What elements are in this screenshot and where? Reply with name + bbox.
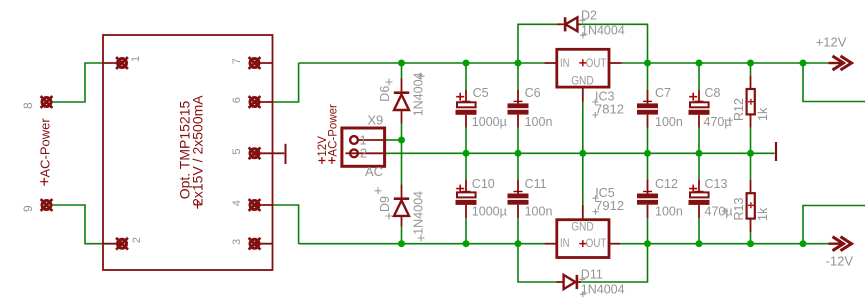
svg-text:IN: IN (560, 238, 570, 250)
wire C12 column (647, 153, 649, 179)
transformer pin 2 stub (103, 243, 122, 245)
wire +12V branch down right edge (803, 63, 865, 102)
capacitor C6 (517, 90, 519, 104)
svg-text:IN: IN (560, 58, 570, 70)
svg-text:1N4004: 1N4004 (412, 72, 426, 116)
wire C10 column (465, 153, 467, 179)
wire C5 column (465, 63, 467, 90)
svg-text:C10: C10 (472, 177, 495, 191)
wire pin8 to transformer pin1 (52, 63, 103, 102)
svg-text:100n: 100n (525, 204, 553, 218)
wire C13 column (698, 153, 700, 179)
svg-text:1N4004: 1N4004 (581, 282, 625, 296)
transformer pin 7 stub (255, 62, 273, 64)
svg-text:1: 1 (130, 56, 142, 62)
svg-text:100n: 100n (655, 204, 683, 218)
svg-text:1k: 1k (756, 107, 770, 121)
origin cross 12V (318, 157, 325, 164)
wire diode column (401, 63, 403, 79)
diode D2 (557, 23, 564, 25)
wire D2 to C7 column (580, 24, 648, 63)
svg-text:1000µ: 1000µ (472, 115, 507, 129)
node pin 9 AC input (41, 199, 53, 211)
origin cross AC-Power left (40, 178, 48, 186)
ground symbol right (775, 142, 777, 161)
wire D11 bypass right (581, 244, 648, 282)
diode D6 (401, 79, 403, 95)
wire X9 pin1 to diode column (386, 139, 402, 141)
svg-text:AC-Power: AC-Power (328, 104, 340, 157)
svg-text:4: 4 (231, 200, 243, 206)
wire top rail left (299, 62, 545, 64)
voltage regulator IC5 7912 (544, 243, 555, 245)
resistor R13 (750, 180, 752, 193)
node X9 pin1 junction (398, 137, 405, 144)
wire R13 column (750, 153, 752, 180)
node junction dots mid rail (463, 150, 470, 157)
capacitor C8 (698, 90, 700, 103)
svg-text:R13: R13 (732, 198, 746, 221)
svg-text:1N4004: 1N4004 (412, 191, 426, 235)
wire transformer pin6 to top rail (273, 63, 299, 102)
node pin 8 AC input (41, 96, 53, 108)
node junction dots top rail (398, 60, 405, 67)
svg-text:470µ: 470µ (704, 115, 732, 129)
transformer pin 1 stub (103, 62, 122, 64)
svg-text:1k: 1k (756, 207, 770, 221)
diode D9 (401, 184, 403, 200)
svg-text:7: 7 (231, 58, 243, 64)
origin cross AC-Power X9 (328, 157, 335, 164)
svg-text:C5: C5 (473, 86, 489, 100)
svg-text:100n: 100n (525, 115, 553, 129)
wire IC3 GND to mid rail (582, 102, 584, 154)
svg-text:100n: 100n (655, 115, 683, 129)
svg-text:GND: GND (571, 222, 594, 234)
svg-text:R12: R12 (732, 98, 746, 121)
svg-text:D6: D6 (378, 86, 392, 102)
capacitor C13 (698, 179, 700, 192)
svg-text:GND: GND (571, 75, 594, 87)
svg-text:7912: 7912 (595, 199, 624, 213)
svg-text:1000µ: 1000µ (472, 204, 507, 218)
svg-text:C13: C13 (705, 177, 728, 191)
transformer pin 4 stub (255, 204, 273, 206)
wire IC5 GND to mid rail (582, 153, 584, 205)
wire C6 column (517, 63, 519, 90)
wire C8 column (698, 63, 700, 90)
svg-text:C7: C7 (655, 86, 671, 100)
voltage regulator IC3 7812 (544, 62, 555, 64)
svg-text:3: 3 (231, 239, 243, 245)
svg-text:X9: X9 (367, 112, 383, 127)
capacitor C11 (517, 179, 519, 193)
wire R12 column (750, 63, 752, 76)
capacitor C10 (465, 179, 467, 192)
svg-text:1N4004: 1N4004 (581, 23, 625, 37)
svg-text:-12V: -12V (826, 254, 854, 269)
svg-text:AC-Power: AC-Power (38, 118, 53, 178)
wire C7 column (647, 63, 649, 90)
transformer pin 5 stub (255, 152, 285, 154)
wire mid GND rail (386, 152, 775, 154)
svg-text:OUT: OUT (586, 238, 607, 250)
resistor R12 (750, 76, 752, 89)
connector X9 pin 1 circle (350, 136, 358, 144)
transformer origin cross (194, 201, 202, 209)
capacitor C12 (647, 179, 649, 193)
svg-text:OUT: OUT (586, 58, 607, 70)
transformer pin 3 stub (255, 243, 273, 245)
svg-text:2: 2 (360, 146, 367, 161)
svg-text:C6: C6 (525, 86, 541, 100)
wire top rail right (622, 62, 829, 64)
svg-text:2x15V / 2x500mA: 2x15V / 2x500mA (190, 95, 206, 206)
wire transformer pin4 to bottom rail (273, 205, 299, 244)
wire D2 bypass (518, 24, 557, 63)
ground bar at transformer pin 5 (285, 144, 287, 164)
svg-text:470µ: 470µ (705, 204, 733, 218)
svg-text:D9: D9 (378, 196, 392, 212)
wire bottom rail right (620, 243, 829, 245)
connector X9 pin 2 circle (350, 149, 358, 157)
wire D11 bypass left (518, 244, 557, 282)
wire -12V branch up right edge (803, 206, 865, 244)
svg-text:+12V: +12V (816, 34, 847, 49)
svg-text:6: 6 (231, 97, 243, 103)
wire bottom rail left (299, 243, 545, 245)
svg-text:7812: 7812 (595, 102, 624, 116)
node junction dots bottom rail (398, 240, 405, 247)
svg-text:AC: AC (365, 164, 383, 179)
svg-text:8: 8 (21, 102, 35, 109)
connector X9 box (342, 128, 385, 166)
transformer TR box (103, 35, 273, 270)
svg-text:C11: C11 (525, 177, 547, 191)
transformer pin 6 stub (255, 101, 273, 103)
diode D11 (557, 281, 564, 283)
capacitor C7 (647, 90, 649, 104)
svg-text:C12: C12 (655, 177, 678, 191)
svg-text:9: 9 (21, 205, 35, 212)
svg-text:5: 5 (231, 148, 243, 154)
wire C11 column (517, 153, 519, 179)
wire pin9 to transformer pin2 (52, 205, 103, 244)
capacitor C5 (465, 90, 467, 103)
svg-text:C8: C8 (705, 86, 721, 100)
svg-text:2: 2 (131, 237, 143, 243)
